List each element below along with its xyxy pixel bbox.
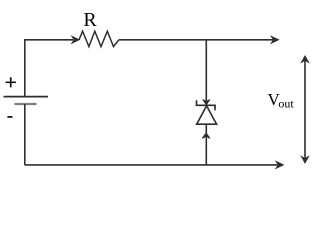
wire middle branch lower <box>205 124 207 165</box>
battery negative terminal label - <box>7 116 12 118</box>
Vout arrowhead up <box>301 56 308 63</box>
wire bottom rail <box>25 164 278 166</box>
zener diode D1 anode triangle <box>197 106 217 124</box>
wire middle branch upper <box>205 40 207 105</box>
wire left from battery negative to bottom rail <box>24 104 26 165</box>
output arrow top right <box>271 36 278 43</box>
current arrow into zener cathode <box>203 100 210 105</box>
Vout arrowhead down <box>301 156 308 163</box>
output arrow bottom right <box>276 161 283 168</box>
resistor R <box>79 31 119 46</box>
battery positive terminal label + <box>6 77 16 87</box>
zener diode D1 cathode bar <box>197 100 216 110</box>
wire top from resistor to output node <box>119 39 273 41</box>
battery V1 negative plate <box>14 103 36 105</box>
Vout measurement double arrow <box>304 58 306 160</box>
current arrow into resistor <box>72 36 79 43</box>
svg-text:R: R <box>83 9 97 31</box>
svg-text:Vout: Vout <box>268 90 295 111</box>
wire top-left from battery positive to resistor <box>25 40 73 96</box>
battery V1 positive plate <box>4 96 49 98</box>
current arrow out of zener anode <box>202 133 210 138</box>
